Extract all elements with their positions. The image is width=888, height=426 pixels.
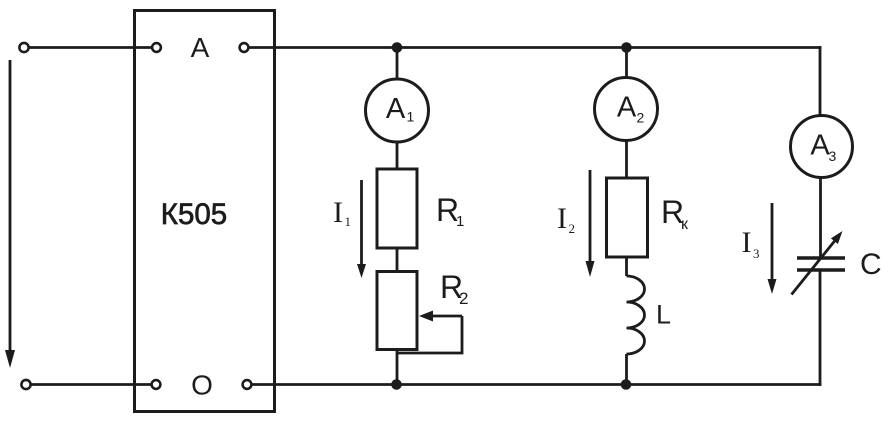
wire R2 to bottom bus bbox=[396, 349, 399, 384]
wire A3 to C bbox=[819, 178, 822, 258]
capacitor C plate top bbox=[797, 256, 845, 260]
wire branch3 top bbox=[819, 46, 822, 115]
svg-text:А: А bbox=[386, 93, 406, 125]
wire L to bottom bus bbox=[625, 354, 628, 385]
svg-text:I: I bbox=[557, 202, 567, 235]
arrow current I1 bbox=[360, 180, 363, 266]
wire branch2 top bbox=[625, 48, 628, 78]
terminal A (box, inner left) bbox=[152, 43, 161, 52]
terminal O (box, inner left) bbox=[152, 380, 161, 389]
wire top bus bbox=[249, 46, 822, 49]
svg-text:К505: К505 bbox=[161, 198, 227, 231]
svg-text:I: I bbox=[741, 226, 751, 259]
svg-text:C: C bbox=[860, 248, 882, 281]
svg-text:2: 2 bbox=[459, 289, 468, 308]
arrow current I2 bbox=[589, 170, 592, 263]
wire Rk to L bbox=[625, 257, 628, 276]
wire A2 to Rk bbox=[625, 141, 628, 179]
node top branch2 bbox=[621, 42, 632, 53]
wire bottom-left bbox=[31, 383, 151, 386]
svg-text:2: 2 bbox=[637, 110, 645, 126]
node top branch1 bbox=[392, 42, 403, 53]
terminal O-left (outside, bottom-left) bbox=[21, 380, 30, 389]
svg-text:1: 1 bbox=[456, 213, 464, 230]
ammeter A3 bbox=[791, 116, 853, 178]
arrow current I3 bbox=[771, 203, 774, 281]
svg-text:1: 1 bbox=[407, 108, 415, 124]
svg-text:3: 3 bbox=[753, 246, 760, 261]
svg-text:3: 3 bbox=[829, 148, 837, 164]
wire top-left bbox=[29, 46, 152, 49]
arrow source direction bbox=[9, 60, 12, 352]
node bottom branch2 bbox=[621, 379, 632, 390]
terminal (box, inner right top) bbox=[240, 43, 249, 52]
terminal A-left (outside, top-left) bbox=[19, 43, 28, 52]
inductor L bbox=[626, 276, 644, 354]
rheostat wiper arrow bbox=[432, 315, 462, 318]
node bottom branch1 bbox=[391, 379, 402, 390]
rheostat R2 bbox=[377, 271, 417, 349]
svg-text:I: I bbox=[333, 196, 343, 229]
svg-text:А: А bbox=[191, 32, 210, 63]
terminal (box, inner right bottom) bbox=[243, 380, 252, 389]
svg-text:А: А bbox=[810, 130, 830, 162]
resistor Rk bbox=[606, 178, 647, 257]
svg-text:О: О bbox=[191, 369, 213, 400]
svg-text:2: 2 bbox=[568, 221, 575, 236]
wire bottom bus bbox=[251, 383, 821, 386]
wire C to bottom bus bbox=[819, 270, 822, 386]
wire R1 to R2 bbox=[396, 248, 399, 271]
svg-text:1: 1 bbox=[344, 214, 351, 229]
ammeter A1 bbox=[366, 79, 429, 142]
wire A1 to R1 bbox=[396, 142, 399, 169]
ammeter A2 bbox=[595, 78, 658, 141]
resistor R1 bbox=[377, 169, 417, 248]
svg-text:к: к bbox=[681, 216, 689, 233]
wire branch1 top bbox=[396, 47, 399, 79]
capacitor C plate bottom bbox=[797, 268, 845, 272]
wire wiper loop bbox=[397, 316, 462, 353]
capacitor variable arrow bbox=[791, 241, 835, 295]
svg-text:А: А bbox=[617, 92, 637, 124]
device box K505 bbox=[134, 10, 274, 411]
svg-text:L: L bbox=[656, 300, 671, 330]
